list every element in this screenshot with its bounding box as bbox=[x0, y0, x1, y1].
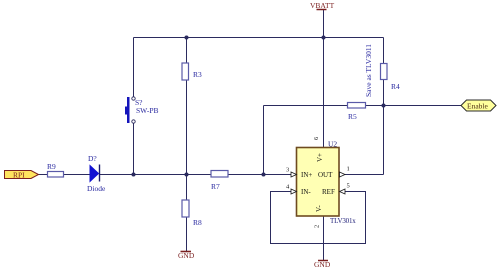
wire IN- REF loop bbox=[271, 192, 366, 244]
wire feedback R5 line y=106 bbox=[264, 105, 462, 107]
wire switch branch lower bbox=[133, 124, 135, 175]
svg-text:R5: R5 bbox=[348, 112, 357, 121]
svg-text:R8: R8 bbox=[193, 218, 202, 227]
svg-text:R4: R4 bbox=[391, 82, 400, 91]
svg-text:IN+: IN+ bbox=[301, 171, 312, 179]
wire VBATT drop to pin 6 bbox=[323, 10, 325, 148]
wire R8 branch bbox=[186, 175, 188, 252]
resistor R3 bbox=[182, 63, 202, 80]
power VBATT bbox=[310, 1, 335, 10]
wire top bus y=37 bbox=[134, 37, 384, 39]
pin 4 arrow + number bbox=[286, 184, 297, 195]
op-amp inner labels bbox=[301, 153, 335, 212]
svg-text:3: 3 bbox=[286, 167, 289, 174]
svg-text:D?: D? bbox=[88, 154, 97, 163]
wire OUT to right branch bbox=[339, 174, 384, 176]
svg-text:5: 5 bbox=[347, 183, 350, 190]
svg-text:R9: R9 bbox=[47, 162, 56, 171]
port RPI bbox=[5, 171, 39, 180]
node junction feedback/main bbox=[262, 173, 266, 177]
wire pin2 to GND bbox=[323, 216, 325, 260]
wire feedback left drop x=263 bbox=[263, 106, 265, 175]
svg-text:Enable: Enable bbox=[467, 102, 488, 111]
svg-text:RPI: RPI bbox=[13, 171, 25, 180]
resistor R7 bbox=[211, 171, 228, 192]
resistor R8 bbox=[182, 200, 202, 227]
svg-text:GND: GND bbox=[178, 251, 195, 260]
wire switch branch upper bbox=[133, 38, 135, 97]
svg-text:2: 2 bbox=[314, 225, 321, 228]
resistor R9 bbox=[47, 162, 64, 177]
svg-text:OUT: OUT bbox=[318, 171, 333, 179]
svg-text:REF: REF bbox=[322, 188, 335, 196]
svg-text:1: 1 bbox=[347, 166, 350, 173]
switch S? SW-PB bbox=[125, 97, 159, 123]
wire right branch x=383 bbox=[383, 38, 385, 175]
node junction R3/R8/main bbox=[185, 173, 189, 177]
svg-text:V-: V- bbox=[315, 205, 323, 212]
ground GND left bbox=[178, 251, 195, 260]
svg-text:R7: R7 bbox=[211, 182, 220, 191]
diode D? bbox=[87, 154, 106, 193]
svg-text:VBATT: VBATT bbox=[310, 1, 335, 10]
node junction R4/R5/OUT bbox=[382, 104, 386, 108]
wire pin3 stub bbox=[280, 174, 297, 176]
wire R3 branch bbox=[186, 38, 188, 175]
wire main line y=174 bbox=[39, 174, 298, 176]
pin 1 arrow + number bbox=[340, 166, 350, 178]
node junction top VBATT bbox=[322, 36, 326, 40]
node junction switch/main bbox=[132, 173, 136, 177]
svg-text:U2: U2 bbox=[328, 140, 337, 149]
svg-text:V+: V+ bbox=[316, 153, 324, 162]
port Enable bbox=[461, 100, 496, 111]
svg-text:Diode: Diode bbox=[87, 184, 106, 193]
svg-text:GND: GND bbox=[314, 260, 331, 269]
pin 5 arrow + number bbox=[340, 183, 350, 195]
svg-text:R3: R3 bbox=[193, 70, 202, 79]
pin 3 arrow + number bbox=[286, 167, 297, 178]
resistor R4 bbox=[381, 64, 401, 92]
wire pin5 stub bbox=[339, 191, 366, 193]
svg-text:TLV301x: TLV301x bbox=[330, 217, 356, 225]
resistor R5 bbox=[348, 103, 366, 122]
svg-text:SW-PB: SW-PB bbox=[136, 106, 159, 115]
op-amp U2 body bbox=[297, 140, 357, 226]
node junction top R3 bbox=[185, 36, 189, 40]
ground GND op-amp bbox=[314, 260, 331, 269]
svg-text:Save as TLV3011: Save as TLV3011 bbox=[364, 44, 373, 97]
svg-text:IN-: IN- bbox=[301, 188, 311, 196]
